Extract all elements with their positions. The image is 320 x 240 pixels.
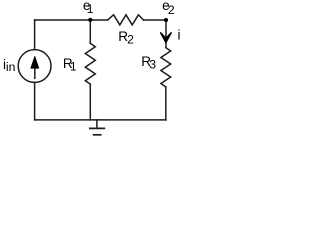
svg-text:2: 2 (127, 32, 134, 46)
svg-text:2: 2 (168, 3, 175, 17)
svg-text:1: 1 (70, 60, 77, 74)
svg-text:i: i (178, 28, 181, 43)
svg-text:1: 1 (87, 2, 94, 16)
svg-text:3: 3 (149, 57, 156, 71)
svg-text:in: in (6, 60, 16, 74)
